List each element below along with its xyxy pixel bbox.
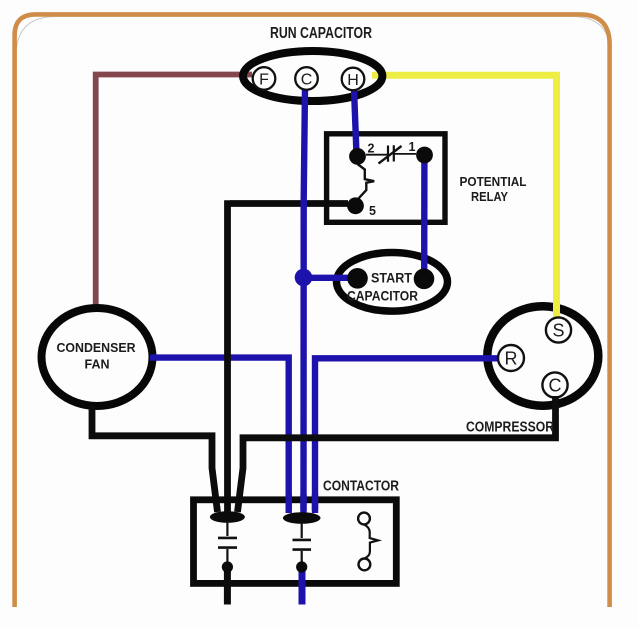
wire relay pin 1 to start capacitor right terminal (blue) [421, 160, 428, 276]
svg-text:CAPACITOR: CAPACITOR [347, 289, 418, 304]
relay pin 5 terminal [347, 197, 364, 214]
svg-text:RELAY: RELAY [471, 190, 509, 204]
svg-text:COMPRESSOR: COMPRESSOR [466, 420, 554, 436]
compressor terminal C [542, 372, 567, 397]
wire compressor R to contactor (blue) [315, 358, 498, 513]
svg-text:1: 1 [409, 140, 416, 154]
svg-text:RUN CAPACITOR: RUN CAPACITOR [270, 25, 372, 42]
compressor terminal S [546, 317, 571, 342]
svg-text:C: C [301, 71, 313, 88]
svg-text:POTENTIAL: POTENTIAL [460, 175, 527, 189]
wire contactor post 1 to bottom (black) [224, 569, 231, 605]
potential relay box [327, 134, 445, 223]
wire condenser fan bottom to contactor post 1 (black) [92, 406, 218, 512]
wire compressor C to contactor post 1 (black) [238, 396, 556, 512]
wire junction to start capacitor left terminal (blue) [301, 275, 352, 281]
junction node on blue wire [295, 269, 313, 287]
start capacitor right terminal [414, 269, 435, 290]
svg-text:CONTACTOR: CONTACTOR [323, 479, 399, 495]
svg-text:START: START [371, 271, 413, 286]
svg-text:5: 5 [369, 204, 376, 218]
contactor post 2 (black lug) [283, 512, 321, 524]
wire F to condenser fan (maroon) [96, 75, 252, 306]
contactor contact symbol under post 2 [301, 522, 303, 538]
wire contactor post 2 to bottom (blue) [299, 571, 306, 605]
run capacitor terminal C [295, 67, 318, 90]
svg-text:H: H [347, 72, 359, 89]
svg-text:C: C [549, 376, 562, 396]
wire relay pin 5 to contactor, horizontal segment (black) [230, 200, 348, 207]
run capacitor ellipse [243, 51, 382, 101]
relay NC contact symbol between pins 2 and 1 [366, 153, 416, 156]
start capacitor ellipse [337, 252, 448, 311]
contactor post 1 (black lug) [210, 511, 245, 523]
relay coil symbol between pins 2 and 5 [358, 164, 375, 199]
run capacitor terminal H [342, 68, 365, 91]
svg-text:S: S [552, 321, 564, 341]
compressor terminal R [498, 345, 524, 371]
run capacitor terminal F [253, 67, 276, 90]
wire C of run capacitor down to contactor (blue) [304, 88, 306, 514]
svg-text:F: F [259, 71, 269, 88]
contactor coil symbol [358, 513, 370, 525]
condenser fan motor circle [42, 308, 153, 406]
svg-text:R: R [505, 349, 518, 369]
wire yellow overlay into compressor S [553, 297, 560, 319]
wire relay pin 5 to contactor post 1, vertical segment (black) [224, 200, 231, 515]
relay pin 2 terminal [349, 148, 366, 165]
wire H of run capacitor to relay pin 2 (blue) [354, 89, 357, 154]
svg-text:CONDENSER: CONDENSER [57, 341, 136, 355]
svg-text:FAN: FAN [85, 358, 110, 372]
wire condenser fan to contactor (blue) [150, 358, 289, 513]
blue wires crossing contactor top edge [289, 494, 315, 510]
contactor box [194, 500, 397, 584]
svg-text:2: 2 [368, 142, 375, 156]
wire H to compressor S (yellow) [372, 75, 557, 318]
contactor contact symbol under post 1 [226, 521, 228, 536]
start capacitor left terminal [347, 268, 368, 289]
compressor motor circle [487, 306, 598, 406]
relay pin 1 terminal [416, 147, 433, 164]
